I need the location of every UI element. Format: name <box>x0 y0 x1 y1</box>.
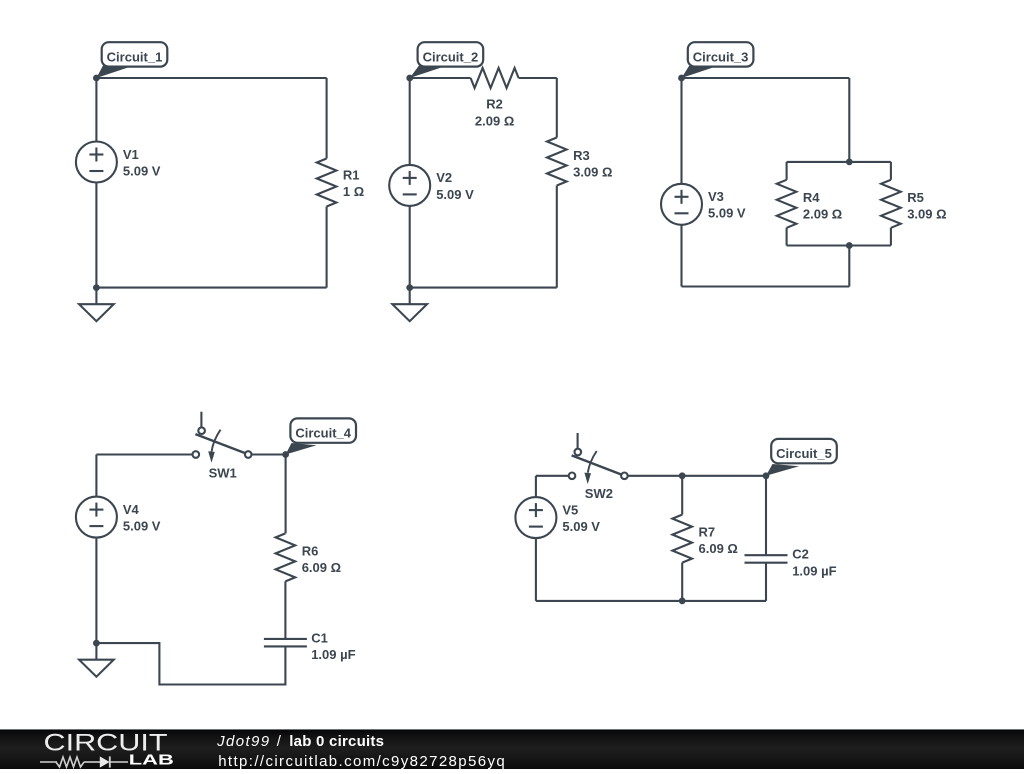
voltage source V3 <box>661 184 702 225</box>
V3 value label <box>708 189 746 221</box>
voltage source V2 <box>389 165 430 206</box>
wire: circuit 3 left (source branch) <box>680 225 682 287</box>
svg-text:R5: R5 <box>907 190 924 205</box>
svg-text:5.09 V: 5.09 V <box>708 206 746 221</box>
svg-text:Jdot99 / lab 0 circuits: Jdot99 / lab 0 circuits <box>216 733 384 750</box>
svg-text:C1: C1 <box>311 630 328 645</box>
svg-text:LAB: LAB <box>129 753 174 769</box>
resistor R3 <box>547 138 567 186</box>
resistor R6 <box>276 533 296 581</box>
svg-text:C2: C2 <box>792 547 809 562</box>
wire: circuit 3 top rail <box>682 77 850 79</box>
wire: circuit 2 top rail left <box>410 77 471 79</box>
node: circuit 5 right junction <box>763 472 770 479</box>
V1 value label <box>123 147 161 179</box>
svg-text:Circuit_2: Circuit_2 <box>423 49 479 64</box>
node: R7 bottom junction <box>679 598 686 605</box>
logo wire <box>40 761 57 763</box>
C1 value label <box>311 630 355 662</box>
svg-text:V4: V4 <box>123 502 140 517</box>
wire: circuit 1 right (resistor branch) <box>326 78 328 159</box>
resistor R5 <box>881 180 901 228</box>
svg-text:Circuit_1: Circuit_1 <box>107 49 163 64</box>
svg-text:V3: V3 <box>708 189 724 204</box>
svg-text:2.09 Ω: 2.09 Ω <box>475 113 514 128</box>
wire: circuit 3 right feed down to parallel pair <box>848 78 850 162</box>
wire: circuit 2 top rail right <box>519 77 557 79</box>
node: parallel bottom junction <box>846 242 853 249</box>
wire: R7 branch <box>681 476 683 515</box>
svg-text:R2: R2 <box>486 97 503 112</box>
switch SW1 <box>193 412 252 463</box>
logo resistor squiggle <box>56 757 84 767</box>
wire: switch to node (circuit 4) <box>252 453 286 455</box>
R2 value label <box>475 97 514 129</box>
V2 value label <box>436 170 474 202</box>
switch SW2 <box>569 433 628 484</box>
voltage source V5 <box>515 497 556 538</box>
wire: switch to node rail (circuit 5) <box>628 475 766 477</box>
wire: R4 branch leads <box>786 162 788 180</box>
svg-text:R3: R3 <box>573 148 590 163</box>
ground (circuit 1) <box>79 288 114 322</box>
svg-text:5.09 V: 5.09 V <box>123 163 161 178</box>
wire: circuit 1 bottom rail <box>96 287 326 289</box>
node: circuit 1 top-left junction <box>93 75 100 82</box>
R6 value label <box>302 543 341 575</box>
V5 value label <box>562 502 600 534</box>
logo diode <box>100 756 110 767</box>
svg-text:3.09 Ω: 3.09 Ω <box>573 164 612 179</box>
wire: circuit 5 bottom rail <box>536 600 766 602</box>
R1 value label <box>343 168 364 200</box>
wire: circuit 3 bottom rail <box>682 285 850 287</box>
node: parallel top junction <box>846 159 853 166</box>
node: circuit 4 node junction <box>282 451 289 458</box>
wire: circuit 5 top rail to switch <box>536 475 569 477</box>
logo wire 3 <box>110 761 128 763</box>
node label Circuit_2 <box>410 42 484 78</box>
capacitor C2 <box>745 555 788 563</box>
wire: circuit 3 feed down from parallel pair <box>848 246 850 287</box>
node label Circuit_4 <box>286 418 356 454</box>
wire: circuit 4 top rail to switch <box>96 453 192 455</box>
wire: circuit 5 left (source branch) <box>535 476 537 497</box>
svg-text:1.09 µF: 1.09 µF <box>311 647 355 662</box>
wire: circuit 2 left (source branch) <box>409 78 411 165</box>
wire: circuit 1 left (source branch) <box>95 78 97 142</box>
R4 value label <box>803 190 842 222</box>
node: circuit 2 bottom junction <box>406 284 413 291</box>
wire: C2 branch top <box>765 476 767 555</box>
wire: circuit 3 parallel top rail <box>787 161 891 163</box>
wire: circuit 2 bottom rail <box>410 287 557 289</box>
resistor R1 <box>317 159 337 207</box>
svg-text:SW2: SW2 <box>585 486 613 501</box>
wire: circuit 4 right branch down to R6 <box>285 455 287 534</box>
ground (circuit 4) <box>79 643 114 677</box>
svg-text:R6: R6 <box>302 543 319 558</box>
svg-text:6.09 Ω: 6.09 Ω <box>302 560 341 575</box>
R7 value label <box>699 524 738 556</box>
SW2 label <box>585 486 613 501</box>
svg-text:http://circuitlab.com/c9y82728: http://circuitlab.com/c9y82728p56yq <box>218 753 505 769</box>
svg-text:6.09 Ω: 6.09 Ω <box>699 541 738 556</box>
svg-text:R7: R7 <box>699 524 716 539</box>
capacitor C1 <box>264 639 307 647</box>
resistor R4 <box>777 180 797 228</box>
node: circuit 1 bottom junction <box>93 284 100 291</box>
svg-text:Circuit_4: Circuit_4 <box>295 426 351 441</box>
svg-text:R1: R1 <box>343 168 360 183</box>
voltage source V4 <box>76 497 117 538</box>
logo wire 2 <box>84 761 100 763</box>
svg-text:5.09 V: 5.09 V <box>436 187 474 202</box>
node: circuit 2 top-left junction <box>406 75 413 82</box>
svg-text:2.09 Ω: 2.09 Ω <box>803 206 842 221</box>
svg-text:3.09 Ω: 3.09 Ω <box>907 206 946 221</box>
svg-text:V5: V5 <box>562 502 578 517</box>
wire: R5 branch leads <box>890 162 892 180</box>
svg-text:1 Ω: 1 Ω <box>343 184 364 199</box>
svg-text:1.09 µF: 1.09 µF <box>792 563 836 578</box>
resistor R2 <box>471 68 519 88</box>
svg-text:5.09 V: 5.09 V <box>123 519 161 534</box>
wire: C2 branch bottom <box>765 563 767 601</box>
R3 value label <box>573 148 612 180</box>
svg-text:SW1: SW1 <box>209 466 237 481</box>
V4 value label <box>123 502 161 534</box>
node: circuit 4 bottom junction <box>93 640 100 647</box>
svg-text:Circuit_5: Circuit_5 <box>776 446 832 461</box>
node: circuit 3 top-left junction <box>678 75 685 82</box>
svg-text:Circuit_3: Circuit_3 <box>693 49 749 64</box>
wire: circuit 4 left (source branch) <box>95 455 97 497</box>
svg-text:5.09 V: 5.09 V <box>562 519 600 534</box>
voltage source V1 <box>76 142 117 183</box>
C2 value label <box>792 547 836 579</box>
node: R7 top junction <box>679 472 686 479</box>
R5 value label <box>907 190 946 222</box>
node label Circuit_1 <box>96 42 167 78</box>
ground (circuit 2) <box>392 288 427 322</box>
svg-text:V1: V1 <box>123 147 139 162</box>
wire: circuit 3 parallel bottom rail <box>787 244 891 246</box>
node label Circuit_3 <box>682 42 754 78</box>
wire: R6 to C1 <box>284 581 286 639</box>
node label Circuit_5 <box>766 439 837 476</box>
wire: C1 down and back to ground node <box>96 643 285 684</box>
svg-text:R4: R4 <box>803 190 820 205</box>
SW1 label <box>209 466 237 481</box>
resistor R7 <box>672 515 692 563</box>
wire: circuit 1 top rail <box>96 77 326 79</box>
wire: circuit 2 right (R3 branch) <box>556 78 558 138</box>
svg-text:V2: V2 <box>436 170 452 185</box>
